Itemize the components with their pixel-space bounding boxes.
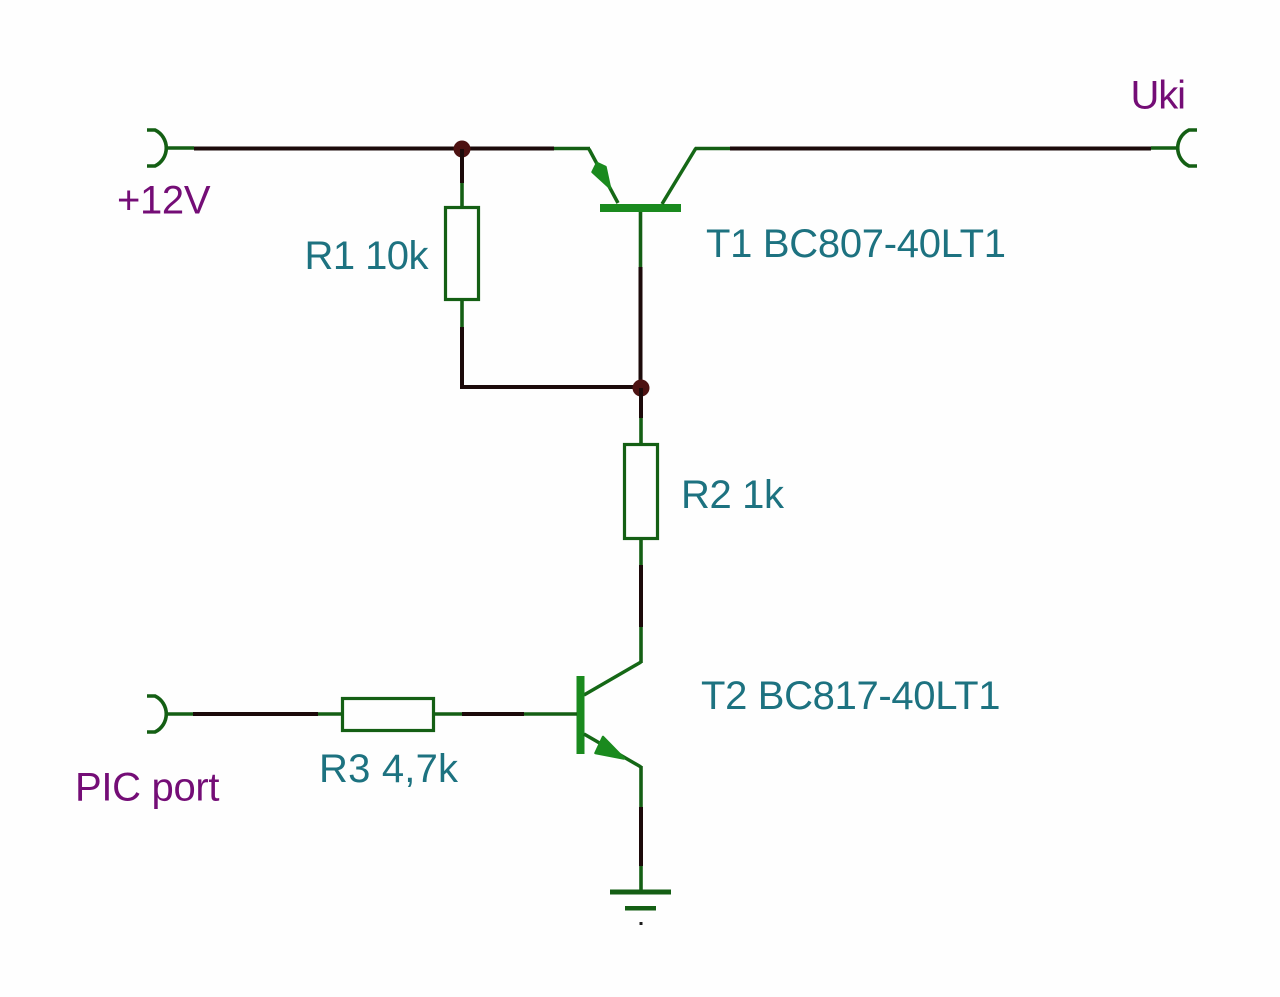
- transistor T2 emitter diagonal: [584, 734, 641, 767]
- transistor T2 base bar: [577, 676, 585, 754]
- wire PIC port to R3 (dark): [193, 712, 318, 716]
- svg-text:R1 10k: R1 10k: [305, 234, 430, 278]
- resistor R2: [625, 445, 658, 539]
- svg-text:T1 BC807-40LT1: T1 BC807-40LT1: [706, 222, 1006, 266]
- ground symbol bar 2: [625, 906, 656, 911]
- svg-text:+12V: +12V: [117, 179, 211, 223]
- resistor R1: [446, 208, 479, 300]
- transistor T1 collector diagonal: [662, 148, 696, 204]
- pin stub R2 top (green): [639, 418, 643, 445]
- wire T1 base to junction (dark): [639, 267, 643, 388]
- transistor T1 base lead (green part): [639, 212, 643, 267]
- svg-text:R2 1k: R2 1k: [681, 473, 785, 517]
- ground symbol dot: [640, 922, 643, 925]
- wire junction to R2 (dark): [639, 388, 643, 418]
- wire Uki rail (dark): [730, 147, 1151, 151]
- wire T2 emitter down (green): [639, 766, 643, 807]
- wire +12V rail (dark): [194, 147, 554, 151]
- svg-text:Uki: Uki: [1131, 74, 1187, 118]
- svg-text:PIC port: PIC port: [75, 766, 220, 810]
- ground symbol bar 1: [610, 890, 671, 895]
- pin stub T2 base (green): [524, 712, 577, 716]
- wire R3 to T2 base (dark): [462, 712, 524, 716]
- connector J2 Uki: [1178, 130, 1197, 166]
- connector J1 +12V: [147, 130, 166, 166]
- wire R2 to T2 collector (dark): [639, 565, 643, 627]
- pin stub of Uki connector (green): [1151, 146, 1178, 150]
- svg-text:R3 4,7k: R3 4,7k: [319, 747, 459, 791]
- pin stub R1 bottom (green): [460, 299, 464, 327]
- transistor T2 emitter arrow (NPN, points out): [596, 737, 625, 759]
- svg-text:T2 BC817-40LT1: T2 BC817-40LT1: [701, 674, 1001, 718]
- transistor T1 emitter pin wire (green): [554, 147, 590, 151]
- pin stub R2 bottom (green): [639, 538, 643, 565]
- wire R1 bottom to corner (dark): [462, 327, 641, 387]
- wire T2 emitter to ground (dark): [639, 807, 643, 866]
- pin stub of PIC port connector (green): [166, 712, 193, 716]
- transistor T1 base bar: [600, 204, 681, 212]
- wire junction to R1 (dark): [460, 149, 464, 183]
- transistor T1 emitter diagonal: [589, 149, 618, 203]
- node junction R1/R2/T1 base: [633, 380, 650, 397]
- pin stub R3 left (green): [318, 712, 344, 716]
- pin stub R3 right (green): [433, 712, 462, 716]
- resistor R3: [343, 699, 434, 731]
- wire T1 collector to Uki (green stub): [695, 147, 730, 151]
- pin stub T2 collector (green): [639, 627, 643, 663]
- ground pin stub (green): [639, 866, 643, 892]
- pin stub of +12V connector: [166, 146, 194, 150]
- node junction on +12V rail: [454, 141, 471, 158]
- pin stub R1 top (green): [460, 183, 464, 209]
- transistor T1 emitter arrow (PNP, points to base): [593, 163, 611, 188]
- transistor T2 collector diagonal: [584, 662, 641, 695]
- connector J3 PIC port: [147, 696, 166, 732]
